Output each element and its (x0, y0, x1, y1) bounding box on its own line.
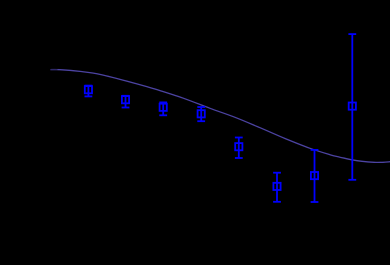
data point 3 square marker (160, 104, 167, 111)
data point 6 error bar (273, 173, 281, 202)
data point 2 error bar (122, 96, 130, 108)
data point 1 square marker (85, 86, 92, 93)
data point 8 error bar (348, 34, 356, 180)
data point 2 square marker (122, 96, 129, 103)
data point 4 error bar (197, 107, 205, 121)
fit curve (51, 70, 390, 163)
data point 6 square marker (273, 183, 280, 190)
data point 3 error bar (159, 102, 167, 115)
data point 7 square marker (311, 172, 318, 179)
data point 8 square marker (349, 103, 356, 110)
data point 1 error bar (85, 86, 93, 97)
fit curve faded left tip (50, 68, 57, 70)
data point 4 square marker (198, 110, 205, 117)
data point 5 error bar (235, 138, 243, 159)
data point 5 square marker (235, 143, 242, 150)
data point 7 error bar (311, 150, 319, 202)
